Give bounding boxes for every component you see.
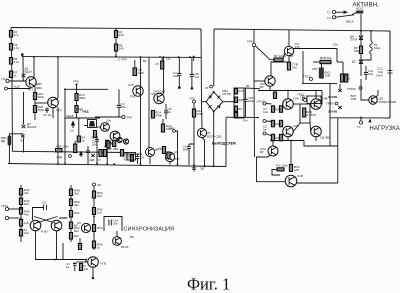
wire quad base link lower b	[309, 123, 312, 132]
wire right edge x389	[389, 31, 391, 118]
terminal TPO	[6, 79, 9, 82]
svg-text:ЗВ0: ЗВ0	[128, 155, 134, 159]
svg-text:1в: 1в	[168, 110, 172, 114]
svg-text:ВУ: ВУ	[260, 150, 264, 154]
wire vert75	[74, 141, 76, 144]
wire stack top right	[244, 87, 260, 90]
wire speaker top	[9, 134, 23, 136]
resistor R26	[33, 106, 36, 113]
terminal bridge top	[210, 85, 213, 88]
resistor VU2	[113, 140, 116, 146]
svg-text:СД 4В0: СД 4В0	[320, 136, 331, 140]
svg-text:100к: 100к	[248, 99, 255, 103]
svg-text:0,15: 0,15	[138, 71, 144, 75]
svg-text:10в: 10в	[183, 148, 188, 152]
wire r50 to d2	[360, 54, 362, 60]
wire rail y118	[65, 117, 100, 119]
wire under T5	[106, 147, 108, 165]
resistor st2	[235, 97, 238, 103]
diode D5	[21, 135, 25, 138]
capacitor C2g	[177, 57, 181, 87]
node bridge bottom	[213, 111, 215, 113]
ground sym194	[192, 165, 196, 171]
node rail B at 194	[193, 56, 195, 58]
ground blob c2g	[178, 86, 181, 89]
resistor sb4	[69, 222, 72, 229]
svg-text:ДВС: ДВС	[36, 82, 43, 86]
resistor sa4	[19, 220, 22, 227]
resistor sc4	[92, 241, 95, 248]
diode D14	[338, 89, 341, 92]
wire left column	[11, 28, 12, 82]
resistor R4	[114, 31, 117, 38]
terminal TP5	[122, 115, 125, 118]
wire RVU3	[321, 64, 323, 71]
resistor RVUB	[320, 60, 331, 63]
wire RLA	[78, 118, 80, 137]
svg-text:СУ: СУ	[70, 129, 74, 133]
resistor sa2	[19, 198, 22, 205]
terminal TP1B	[335, 102, 338, 105]
svg-text:3к0: 3к0	[97, 194, 102, 198]
terminal TP13b	[304, 99, 307, 102]
resistor st1	[235, 89, 238, 95]
resistor RQ21b horizontal	[277, 168, 284, 171]
component LU8 dark core	[89, 121, 95, 127]
svg-text:390к: 390к	[79, 96, 86, 100]
svg-text:R28 100к: R28 100к	[56, 145, 69, 149]
wire Q20 right	[376, 90, 378, 97]
svg-text:ТР1В: ТР1В	[326, 102, 334, 106]
wire d14 column	[339, 84, 341, 89]
svg-text:10в: 10в	[173, 74, 178, 78]
svg-text:390к: 390к	[38, 108, 45, 112]
wire q19 emitter left and down	[257, 155, 286, 182]
svg-text:240: 240	[119, 47, 124, 51]
capacitor C10g	[190, 57, 194, 87]
wire q17 bottom	[287, 137, 289, 141]
svg-text:СЛ9: СЛ9	[293, 124, 299, 128]
wire y117 right part	[330, 117, 390, 119]
wire switch to fuse	[352, 12, 358, 15]
svg-text:10н: 10н	[92, 143, 97, 147]
resistor R343b	[345, 74, 348, 82]
wire long vertical x65	[64, 89, 66, 164]
component box LU8	[88, 120, 97, 128]
svg-text:Фиг. 1: Фиг. 1	[187, 275, 230, 293]
resistor R28	[56, 149, 63, 152]
svg-text:1в: 1в	[66, 265, 70, 269]
svg-text:ТР14: ТР14	[1, 204, 9, 208]
resistor RVU3	[320, 71, 323, 79]
wire Q20	[361, 79, 369, 100]
svg-text:ТРО: ТРО	[1, 78, 8, 82]
svg-text:ВАЛ18: ВАЛ18	[27, 125, 37, 129]
terminal TP11	[69, 155, 72, 158]
wire VT1 emitter chain	[34, 86, 36, 120]
svg-text:1к5: 1к5	[97, 211, 102, 215]
speaker BF1	[8, 136, 12, 146]
component rect stack	[234, 88, 244, 118]
wire T7 collector	[162, 57, 164, 95]
svg-text:ВУ: ВУ	[260, 85, 264, 89]
resistor rc2b	[279, 120, 282, 127]
component box quad mid	[300, 104, 310, 123]
svg-text:R ВУ: R ВУ	[41, 230, 48, 234]
capacitor C13	[95, 136, 99, 146]
svg-text:ТР8: ТР8	[247, 40, 253, 44]
wire T10 emitter drop	[149, 157, 151, 165]
resistor R50	[359, 46, 362, 54]
wire Q14 base left	[254, 80, 265, 82]
transistor Q19	[268, 146, 278, 156]
arrow up 81	[80, 152, 83, 157]
wire T4 base left	[97, 126, 101, 128]
svg-text:1В0: 1В0	[354, 49, 360, 53]
svg-text:VЕ1В: VЕ1В	[66, 114, 74, 118]
wire x330 down	[329, 83, 331, 146]
svg-text:ЗВ: ЗВ	[200, 167, 204, 171]
svg-text:4,7В75: 4,7В75	[307, 113, 317, 117]
svg-text:1,1к: 1,1к	[14, 46, 20, 50]
node Qb bus2	[204, 165, 206, 167]
resistor rc3a	[271, 134, 274, 141]
wire TPO to VT1 base	[9, 80, 26, 82]
wire q25 left	[77, 261, 88, 263]
transistor Q25	[88, 257, 99, 268]
wire q21 right	[297, 182, 338, 184]
resistor R1	[9, 31, 12, 38]
wire lower block right box	[304, 141, 338, 147]
svg-text:140У: 140У	[376, 74, 383, 78]
wire vert226	[225, 117, 227, 166]
svg-text:8к2: 8к2	[74, 229, 79, 233]
wire right box vert	[337, 118, 339, 183]
svg-text:8к2: 8к2	[74, 234, 79, 238]
svg-text:НВД: НВД	[83, 110, 89, 114]
terminal TP15C	[359, 87, 362, 90]
wire bridge left to Qb line	[202, 101, 206, 103]
chassis triangle marker	[368, 119, 371, 123]
svg-text:100: 100	[294, 168, 299, 172]
svg-text:ВУ: ВУ	[246, 84, 250, 88]
arrow T1	[336, 11, 347, 13]
svg-text:ВУ: ВУ	[290, 54, 294, 58]
wire Q13 emitter chain	[288, 56, 290, 62]
wire quad base link b	[309, 103, 312, 105]
diode LED arrow	[72, 122, 75, 129]
svg-text:R36: R36	[275, 122, 281, 126]
transistor Q16	[311, 99, 322, 110]
wire speaker bottom	[8, 146, 10, 164]
svg-text:Т2: Т2	[327, 16, 331, 20]
wire top lower block	[270, 140, 304, 142]
resistor r122	[120, 150, 123, 157]
transistor T5	[110, 131, 120, 141]
terminal TY	[359, 121, 362, 124]
capacitor CY2	[117, 89, 121, 117]
wire TY stub	[360, 118, 362, 121]
svg-text:СН: СН	[140, 156, 144, 160]
wire x63 drop	[62, 243, 64, 260]
svg-text:ЗАУ9В: ЗАУ9В	[328, 95, 337, 99]
wire C13 down	[96, 146, 98, 164]
diode D15	[338, 106, 341, 109]
wire mid vertical x149	[148, 57, 150, 148]
resistor sc2	[92, 208, 95, 215]
transistor Qb	[197, 128, 206, 137]
resistor R5	[9, 58, 12, 65]
svg-text:СУ: СУ	[155, 62, 159, 66]
wire q15 top	[287, 91, 289, 99]
sync section left terminal TP14a	[5, 207, 8, 210]
wire d2 down	[360, 64, 362, 77]
svg-text:1св: 1св	[195, 75, 200, 79]
svg-text:ТР13: ТР13	[303, 75, 311, 79]
coil dark 1BY	[319, 68, 324, 79]
svg-text:10к: 10к	[333, 43, 338, 47]
wire bus1	[12, 151, 128, 152]
wire x303	[302, 51, 304, 83]
transistor Q15	[283, 99, 294, 110]
resistor stack col116 wire	[115, 29, 117, 57]
diode D3	[22, 125, 26, 128]
svg-text:КУ2: КУ2	[239, 89, 245, 93]
svg-text:ЧУ7: ЧУ7	[174, 157, 180, 161]
wire TP8 to base resistor	[256, 46, 275, 60]
svg-text:ЗГУ8: ЗГУ8	[350, 38, 357, 42]
svg-text:8к2: 8к2	[24, 202, 29, 206]
wire q25 ground	[92, 267, 94, 277]
wire Qb down to bus2	[202, 138, 205, 167]
svg-text:R54: R54	[74, 211, 80, 215]
wire quad right vertical	[320, 91, 323, 105]
terminal TPB	[173, 130, 176, 133]
terminal TP13	[310, 78, 313, 81]
wire sync colA	[20, 185, 22, 242]
svg-text:300к: 300к	[38, 95, 45, 99]
resistor hang162	[161, 61, 164, 69]
transistor Q22	[30, 220, 41, 231]
wire rq21b	[272, 169, 280, 175]
capacitor C5	[45, 108, 49, 114]
wire TP5 left	[95, 116, 122, 118]
wire quad base link lower	[293, 123, 300, 132]
wire Q13 collector up	[288, 30, 290, 47]
wire left rail turn down x201	[201, 29, 202, 128]
svg-text:17к: 17к	[14, 33, 19, 37]
capacitor C16	[187, 144, 194, 165]
svg-text:97: 97	[174, 151, 178, 155]
svg-text:VТ5: VТ5	[128, 83, 134, 87]
wire stub 194	[193, 57, 195, 61]
svg-text:1к0: 1к0	[84, 267, 89, 271]
wire q21 vert	[290, 141, 292, 165]
capacitor C1s	[73, 262, 77, 271]
component box131	[127, 153, 136, 161]
svg-text:(ТУ820-600)В: (ТУ820-600)В	[378, 100, 397, 104]
svg-text:1,1к: 1,1к	[14, 60, 20, 64]
wire q16 top	[315, 91, 317, 99]
wire RVUB	[313, 61, 320, 63]
svg-text:ЗГ: ЗГ	[205, 86, 209, 90]
svg-text:43к: 43к	[74, 203, 79, 207]
wire sync colB	[70, 185, 72, 242]
resistor R7	[9, 71, 12, 78]
resistor R16	[130, 155, 133, 162]
resistor extra 275	[273, 92, 276, 99]
transistor T7	[154, 93, 164, 103]
node junction on rail B	[21, 53, 24, 56]
svg-text:43к: 43к	[24, 191, 29, 195]
svg-text:ВД1я: ВД1я	[25, 70, 33, 74]
wire d4 to res	[360, 40, 362, 47]
wire mid vertical x140	[140, 57, 142, 164]
terminal TP12	[302, 98, 305, 101]
resistor st4	[235, 113, 238, 118]
svg-text:ВУ: ВУ	[143, 59, 147, 63]
svg-text:ВС16: ВС16	[121, 245, 129, 249]
transistor T4	[101, 123, 110, 132]
svg-text:БУ: БУ	[239, 107, 243, 111]
bridge rectifier OB1	[206, 92, 223, 112]
resistor RC1s	[79, 264, 82, 271]
wire RQ13 to base	[283, 54, 285, 60]
svg-text:430к: 430к	[156, 114, 163, 118]
wire y83	[302, 82, 337, 84]
wire cross couple	[34, 217, 58, 223]
wire left column down continuation	[11, 81, 13, 152]
resistor rc3b	[279, 134, 282, 141]
svg-text:СИНХРОНИЗАЦИЯ: СИНХРОНИЗАЦИЯ	[124, 227, 175, 233]
resistor at168	[167, 152, 170, 159]
wire bus2	[8, 164, 226, 167]
svg-text:ТР15С: ТР15С	[347, 87, 357, 91]
resistor pair101b	[103, 150, 106, 157]
switch lever VB1A	[336, 15, 354, 17]
svg-text:1в: 1в	[263, 128, 267, 132]
wire T11 emitter drop	[169, 162, 171, 165]
wire diode branch VD1	[22, 57, 24, 81]
svg-text:R38: R38	[275, 136, 281, 140]
sync terminal TP14b	[5, 216, 8, 219]
resistor R34	[192, 109, 195, 117]
terminal col circles c1	[263, 102, 266, 105]
resistor sc3	[92, 225, 95, 232]
svg-text:С1В: С1В	[297, 174, 303, 178]
transistor Q14	[265, 76, 275, 86]
resistor sa3	[19, 208, 22, 215]
wire vert194	[193, 103, 195, 165]
wire x361 down	[360, 14, 362, 35]
transistor Q23	[51, 220, 62, 231]
svg-text:СЛВ: СЛВ	[156, 147, 162, 151]
resistor sa5	[19, 230, 22, 237]
node on rail B at 116	[115, 56, 117, 58]
wire sync colC	[93, 186, 95, 250]
resistor RLA	[77, 136, 80, 142]
diode ZD6	[91, 154, 94, 157]
resistor sb3	[69, 211, 72, 218]
wire top rail left block	[11, 28, 201, 30]
diode D4	[359, 36, 363, 40]
wire rail B	[22, 56, 201, 59]
flip flop top caps wire	[33, 208, 44, 221]
wire ff bottom to right	[55, 259, 86, 261]
wire x337 down	[336, 49, 338, 63]
svg-text:10в: 10в	[368, 72, 373, 76]
node TP6	[76, 84, 78, 86]
resistor RQ21	[289, 165, 292, 172]
wire R16 hang rail	[122, 153, 143, 155]
resistor RQ13e vertical	[287, 62, 290, 70]
switch area: terminal T1	[332, 10, 335, 13]
svg-text:АКТИВН.: АКТИВН.	[353, 1, 380, 8]
component vert75	[74, 144, 77, 153]
svg-text:10В: 10В	[351, 97, 356, 101]
svg-text:10к: 10к	[24, 231, 29, 235]
svg-text:НАГРУЗКА: НАГРУЗКА	[370, 126, 400, 132]
svg-text:ВУ: ВУ	[104, 145, 108, 149]
wire VT1 collector up	[33, 57, 35, 79]
svg-text:ЧЛ: ЧЛ	[151, 92, 155, 96]
resistor R24b	[151, 111, 154, 119]
svg-text:ТУ: ТУ	[357, 125, 361, 129]
resistor R-right-of-box	[93, 131, 96, 138]
svg-text:ТР13: ТР13	[300, 95, 308, 99]
wire q19 top	[272, 141, 274, 147]
resistor r108	[107, 141, 110, 148]
svg-text:43к: 43к	[24, 213, 29, 217]
wire LU8 sides	[84, 125, 88, 127]
wire junction drop	[21, 55, 23, 57]
svg-text:(ЗГУ8): (ЗГУ8)	[222, 92, 231, 96]
wire extra resistor	[79, 238, 81, 244]
ground blob c10g	[191, 87, 194, 90]
wire cmid	[134, 60, 136, 68]
svg-text:4В2: 4В2	[113, 147, 119, 151]
wire quad base link	[293, 103, 300, 105]
transistor Q21	[285, 175, 297, 187]
resistor R12	[75, 106, 78, 113]
svg-text:10В: 10В	[325, 74, 330, 78]
svg-text:СР: СР	[97, 183, 101, 187]
wire right block mid rail y90	[258, 90, 322, 92]
wire rc to q15	[266, 103, 271, 105]
wire rc row3	[266, 134, 271, 137]
terminal CP	[93, 183, 96, 186]
capacitor C18	[244, 88, 248, 118]
terminal col circles c3	[263, 132, 266, 135]
wire TP6 drop	[76, 85, 78, 119]
svg-text:МкН: МкН	[374, 46, 380, 50]
wire ff bottom junction	[85, 260, 87, 263]
fuse ACY1	[357, 11, 364, 13]
svg-text:R34: R34	[275, 108, 281, 112]
wire tp14b	[9, 217, 20, 219]
node bridge top	[213, 91, 215, 93]
svg-text:Т1: Т1	[327, 11, 331, 15]
svg-text:ВСЛ9-СД0: ВСЛ9-СД0	[207, 135, 222, 139]
svg-text:ВУ: ВУ	[74, 224, 78, 228]
svg-text:СЛ8: СЛ8	[293, 97, 299, 101]
transistor VT3	[48, 97, 59, 108]
wire right top rail	[214, 29, 390, 31]
wire Q14 emitter	[269, 86, 271, 90]
transistor T9	[133, 86, 143, 96]
svg-text:ЗГВ: ЗГВ	[107, 142, 112, 146]
resistor R3	[9, 44, 12, 51]
